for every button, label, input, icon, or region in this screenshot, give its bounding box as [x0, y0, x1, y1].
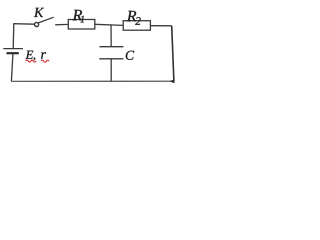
label K — [34, 8, 44, 17]
spellcheck squiggle under r — [41, 60, 49, 62]
label R1 subscript 1 — [80, 16, 84, 23]
wire: resistor R1 to resistor R2 — [95, 24, 123, 25]
battery E short negative plate — [7, 52, 19, 54]
capacitor C bottom plate — [99, 58, 123, 60]
switch K pivot circle — [35, 22, 39, 26]
label R2 subscript 2 — [135, 17, 140, 25]
label R2 letter R — [127, 11, 137, 21]
wire: right vertical — [172, 26, 174, 81]
wire: top-left horizontal, corner to switch — [14, 23, 35, 26]
label C — [126, 51, 134, 60]
wire: junction stub down to capacitor C — [110, 25, 112, 47]
wire: capacitor bottom stub to bottom wire — [110, 59, 112, 81]
battery E long positive plate — [3, 48, 23, 50]
label E — [26, 51, 34, 59]
spellcheck squiggle under E, — [26, 60, 36, 62]
wire: left vertical lower, battery to bottom corner — [11, 54, 13, 81]
label R1 letter R — [73, 10, 83, 20]
wire: left vertical upper, corner to battery — [12, 23, 15, 48]
arrowhead blob at bottom-right corner — [169, 79, 174, 83]
wire: resistor R2 to top-right corner — [150, 25, 171, 27]
capacitor C top plate — [99, 46, 123, 48]
label comma after E — [33, 58, 35, 61]
switch K blade — [38, 17, 53, 23]
resistor R2 body — [123, 21, 150, 31]
wire: bottom horizontal — [11, 80, 174, 82]
label r internal resistance — [41, 52, 46, 59]
resistor R1 body — [68, 20, 95, 30]
wire: switch to resistor R1 — [55, 23, 68, 25]
